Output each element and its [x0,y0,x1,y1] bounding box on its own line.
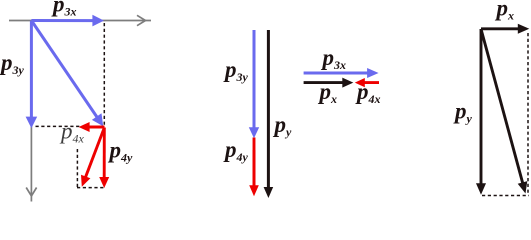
svg-text:p4x: p4x [59,119,85,146]
svg-text:p4y: p4y [108,138,134,165]
svg-text:p4y: p4y [223,137,249,164]
svg-text:p3x: p3x [321,45,347,72]
svg-text:py: py [273,112,293,139]
svg-text:p3x: p3x [51,0,77,19]
svg-text:p3y: p3y [223,57,249,84]
svg-text:p3y: p3y [0,50,25,77]
svg-text:px: px [495,0,515,23]
svg-text:py: py [453,99,473,126]
